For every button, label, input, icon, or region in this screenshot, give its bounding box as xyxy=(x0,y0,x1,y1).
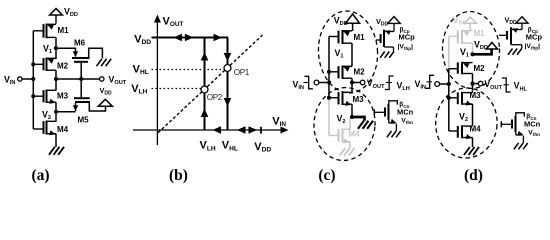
ground at MCp panel c xyxy=(380,52,394,58)
wire column M3-M4 panel d xyxy=(472,104,474,126)
caption (d) xyxy=(464,167,483,184)
dashed ellipse upper panel c xyxy=(316,9,381,95)
label MCn panel d xyxy=(524,119,541,128)
transistor M6 horizontal with source arrow xyxy=(72,51,90,62)
node VOUT junction dots xyxy=(54,77,83,81)
transistor M1 panel c xyxy=(329,30,352,44)
transistor M5 horizontal with source arrow xyxy=(73,79,90,111)
label VDD y-axis xyxy=(134,33,151,46)
wire column M1-M2 xyxy=(55,37,57,59)
svg-text:(c): (c) xyxy=(318,167,335,184)
label M3 xyxy=(57,91,69,100)
label M4 panel d xyxy=(470,125,482,134)
label M2 panel d xyxy=(474,64,486,73)
terminal VIN panel c xyxy=(314,80,329,85)
svg-text:M4: M4 xyxy=(470,125,482,134)
terminal VIN panel d xyxy=(435,82,449,87)
rising step symbol VLH xyxy=(385,76,394,90)
svg-text:M2: M2 xyxy=(354,67,366,76)
svg-text:MCn: MCn xyxy=(524,119,541,128)
label MCp panel c xyxy=(399,33,416,42)
wire input gate rail panel a xyxy=(31,31,35,129)
svg-text:OP1: OP1 xyxy=(234,68,250,77)
label beta Cn panel c xyxy=(399,101,409,109)
svg-text:M1: M1 xyxy=(354,33,366,42)
axis VOUT vertical xyxy=(154,15,161,146)
caption (b) xyxy=(169,167,188,184)
svg-text:M3: M3 xyxy=(470,91,482,100)
label VDD panel c xyxy=(334,15,348,27)
transistor MCp panel d xyxy=(499,27,522,45)
wire node V2 to M5 source xyxy=(56,111,76,113)
wire MCp drain to ground panel d xyxy=(521,45,523,49)
dotted level VLH xyxy=(152,88,202,90)
label OP1 xyxy=(234,68,250,77)
wire input gate rail panel d xyxy=(447,69,451,131)
label VOUT axis xyxy=(163,15,184,28)
label M2 panel c xyxy=(354,67,366,76)
label VIN axis xyxy=(272,116,286,129)
label VHL x-axis xyxy=(222,140,238,153)
hysteresis right vertical at VHL xyxy=(227,38,229,131)
ghost power VDD symbol panel d xyxy=(464,17,476,30)
label M5 xyxy=(78,116,90,125)
wire column M3-M4 xyxy=(55,102,57,121)
svg-text:OP2: OP2 xyxy=(207,93,223,102)
node OP1 xyxy=(224,65,231,72)
node V2 xyxy=(42,110,58,122)
node V1 panel d xyxy=(460,47,475,59)
transistor M2 panel c xyxy=(329,66,352,80)
svg-text:M4: M4 xyxy=(57,125,69,134)
wire column M4 to ground xyxy=(55,134,57,147)
label beta Cp panel d xyxy=(528,26,538,34)
terminal VOUT panel a xyxy=(100,74,127,86)
ground panel a xyxy=(49,147,64,155)
node OP2 xyxy=(201,86,208,93)
wire M6 gate to VOUT node xyxy=(80,63,82,79)
label VIN panel c xyxy=(293,80,304,92)
label Vthn panel d xyxy=(528,130,540,138)
rising step symbol at VIN panel d xyxy=(425,75,434,88)
dotted level VHL xyxy=(152,69,225,71)
label M1 panel c xyxy=(354,33,366,42)
label Vthp panel d xyxy=(525,43,541,51)
label VLH x-axis xyxy=(200,140,216,153)
ghost transistor M1 panel d xyxy=(449,30,473,44)
label M1 xyxy=(58,26,70,35)
dashed ellipse lower panel d xyxy=(433,86,499,160)
terminal VIN panel a xyxy=(4,74,33,86)
dashed ellipse upper panel d xyxy=(441,10,502,90)
wire column M4 to ground panel d xyxy=(472,138,474,148)
ground at MCp panel d xyxy=(508,49,522,55)
wire column M2 to M3 with VOUT branch xyxy=(56,70,99,90)
svg-text:M1: M1 xyxy=(58,26,70,35)
wire V2 to ground panel c xyxy=(352,117,365,121)
svg-text:M3: M3 xyxy=(57,91,69,100)
wire node V1 to M6 source xyxy=(56,48,76,56)
label MCn panel c xyxy=(397,107,414,116)
transistor M3 panel d xyxy=(449,92,473,106)
wire V1 to VDD panel d xyxy=(473,49,492,55)
node V1 xyxy=(43,44,58,56)
power VDD symbol MCp panel c xyxy=(388,17,400,32)
transistor M3 xyxy=(33,90,56,104)
ground at MCn panel d xyxy=(514,143,528,149)
svg-text:(b): (b) xyxy=(169,167,188,184)
label VHL output panel d xyxy=(514,81,528,93)
node V1 panel c xyxy=(335,48,344,60)
transistor M4 panel d xyxy=(449,125,473,139)
transistor M4 xyxy=(33,121,56,136)
label VDD MCp panel d xyxy=(505,16,517,27)
label VLH output panel c xyxy=(397,81,410,93)
label M6 xyxy=(74,38,86,47)
power VDD symbol panel c xyxy=(346,14,360,31)
arrowheads on x-axis xyxy=(213,126,258,134)
ghost label M1 panel d xyxy=(474,29,486,38)
node V2 panel c xyxy=(337,114,355,126)
dashed diagonal VOUT=VIN xyxy=(158,35,263,133)
wire MCn source to ground panel c xyxy=(395,124,397,131)
label M3 panel c xyxy=(353,95,365,104)
wire M5 drain to VDD xyxy=(89,103,105,111)
label MCp panel d xyxy=(526,32,543,41)
wire column M1-M2 panel c xyxy=(351,43,353,66)
svg-text:(d): (d) xyxy=(464,167,483,184)
label Vthn panel c xyxy=(401,118,413,126)
power VDD symbol panel a xyxy=(50,9,63,24)
arrowheads on top segment xyxy=(173,34,222,42)
node VOUT panel c xyxy=(350,80,360,84)
falling step symbol VHL xyxy=(502,78,511,92)
label Vthp panel c xyxy=(398,43,414,51)
label VDD MCp panel c xyxy=(376,17,388,28)
transistor MCn panel d xyxy=(501,113,524,136)
node VOUT panel d xyxy=(470,82,478,86)
svg-text:M6: M6 xyxy=(74,38,86,47)
label VDD x-axis xyxy=(254,141,271,154)
label M2 xyxy=(57,62,69,71)
transistor MCn panel c xyxy=(374,101,397,124)
svg-text:MCp: MCp xyxy=(399,33,416,42)
ghost label VDD panel d xyxy=(453,15,467,27)
terminal VOUT panel c xyxy=(360,78,385,90)
transistor M2 panel d xyxy=(449,62,473,75)
svg-text:M5: M5 xyxy=(78,116,90,125)
svg-text:M2: M2 xyxy=(474,64,486,73)
dashed ellipse lower panel c xyxy=(311,85,378,163)
wire MCn source to ground panel d xyxy=(522,136,524,143)
wire column M2-M3 panel d xyxy=(472,74,474,93)
up arrowheads on left vertical xyxy=(201,52,209,117)
down arrowheads on right vertical xyxy=(224,53,232,107)
terminal VOUT panel d xyxy=(478,79,502,91)
svg-text:MCn: MCn xyxy=(397,107,414,116)
caption (a) xyxy=(31,167,49,184)
label VDD panel a xyxy=(64,7,78,19)
hysteresis top segment at VDD xyxy=(152,37,229,39)
axis VIN horizontal xyxy=(133,127,289,134)
caption (c) xyxy=(318,167,335,184)
ghost transistor M4 panel c xyxy=(329,129,350,144)
svg-text:M4: M4 xyxy=(349,129,361,138)
label beta Cn panel d xyxy=(526,113,536,121)
ground at MCn panel c xyxy=(387,131,401,137)
label VIN panel d xyxy=(415,79,426,91)
transistor MCp panel c xyxy=(376,30,394,47)
svg-text:MCp: MCp xyxy=(526,32,543,41)
label OP2 xyxy=(207,93,223,102)
wire column M3 to V2 panel c xyxy=(351,104,353,117)
wire MCp drain to ground panel c xyxy=(393,47,395,52)
wire input gate rail panel c xyxy=(327,37,331,100)
transistor M3 panel c xyxy=(329,92,352,106)
power VDD symbol at M5 xyxy=(98,86,112,106)
power VDD symbol MCp panel d xyxy=(516,17,528,30)
label M4 xyxy=(57,125,69,134)
transistor M1 xyxy=(33,24,56,39)
svg-text:M3: M3 xyxy=(353,95,365,104)
ghost label M4 panel c xyxy=(349,129,361,138)
svg-text:(a): (a) xyxy=(31,167,49,184)
ground at M6 xyxy=(96,59,111,66)
ground panel d xyxy=(464,147,479,155)
power VDD symbol at V1 panel d xyxy=(486,42,497,49)
falling step symbol at VIN panel c xyxy=(303,76,313,89)
label beta Cp panel c xyxy=(400,27,410,35)
label VLH y-axis xyxy=(131,83,147,96)
svg-text:M2: M2 xyxy=(57,62,69,71)
label VDD panel d xyxy=(474,40,488,52)
wire column M2-M3 panel c xyxy=(351,78,353,93)
ghost wires M4 panel c xyxy=(329,98,350,148)
label M3 panel d xyxy=(470,91,482,100)
transistor M2 xyxy=(33,58,56,72)
ghost wires M1 panel d xyxy=(449,36,473,68)
svg-text:M1: M1 xyxy=(474,29,486,38)
hysteresis left vertical at VLH xyxy=(204,38,206,131)
wire M6 drain to ground xyxy=(89,48,103,58)
tick VDD x-axis xyxy=(260,127,262,134)
ground at V2 panel c xyxy=(358,121,373,129)
node V2 panel d xyxy=(459,111,468,123)
ghost ground panel c xyxy=(340,148,355,156)
label VHL y-axis xyxy=(133,64,149,77)
